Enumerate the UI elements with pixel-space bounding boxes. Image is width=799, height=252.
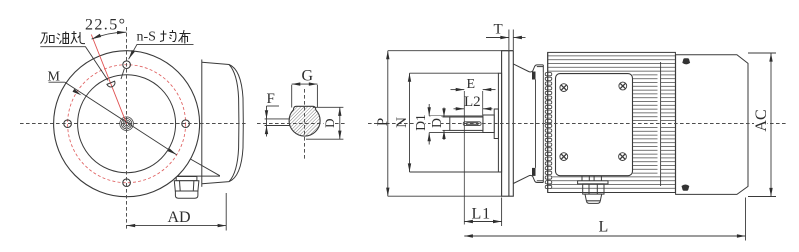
arrowhead D-section top (338, 107, 341, 116)
arrowhead P top (386, 51, 389, 60)
bolt circle (red dashed) (68, 65, 186, 183)
dimension L (464, 198, 745, 241)
bolt hole right (182, 120, 190, 128)
shaft collar (483, 115, 494, 133)
arrowhead T left (500, 36, 509, 39)
arrowhead AD right (218, 224, 227, 227)
svg-text:L: L (599, 219, 609, 236)
stator end joint line right (660, 62, 662, 186)
screw bottom-right (619, 153, 627, 161)
keyway inner slot (466, 123, 478, 125)
rubber pad top (dark) (532, 72, 536, 80)
cable gland nut body (side view) (583, 184, 604, 194)
arrowhead D-section bottom (338, 131, 341, 140)
dimension AD (127, 193, 227, 231)
arrowhead G right (309, 82, 318, 85)
arrowhead N bottom (408, 163, 411, 172)
terminal box plate (556, 74, 633, 176)
arrowhead L2 right (483, 107, 492, 110)
keyway on shaft (463, 122, 481, 126)
flange outer circle (54, 51, 200, 197)
svg-text:AC: AC (753, 109, 770, 131)
arrowhead AC top (769, 53, 772, 62)
arrowhead AD left (127, 224, 136, 227)
screw top-right (619, 82, 627, 90)
bearing hub disc (494, 109, 498, 139)
label D shaft (rotated) (431, 116, 442, 130)
arrowhead D-shaft top (442, 108, 445, 117)
dimension N (410, 73, 502, 172)
arrowhead F bottom (265, 126, 268, 135)
wire: vertical centerline of front view (126, 27, 128, 230)
svg-text:P: P (375, 118, 391, 126)
end bracket top profile (513, 64, 543, 72)
fan cover bottom screw (dark) (682, 185, 690, 191)
svg-text:F: F (267, 91, 275, 107)
motor body fins (horizontal lines) (548, 56, 676, 188)
arrowhead n-S at top bolt hole (129, 50, 135, 59)
arrowhead M upper (73, 89, 82, 96)
arrowhead L2 left (456, 107, 465, 110)
label M leader (49, 81, 65, 83)
dimension E (451, 89, 496, 91)
dimension T (486, 30, 526, 51)
oil hole symbol on inner circle (107, 81, 116, 88)
dimension F (265, 106, 290, 137)
bracket fin tabs column (545, 73, 552, 189)
stator end joint line left (547, 52, 549, 192)
svg-text:D: D (429, 118, 444, 128)
svg-text:L2: L2 (464, 94, 481, 110)
arrowhead arc left (92, 34, 102, 39)
arrowhead L1 right (493, 220, 502, 223)
dimension M diameter line across bolt circle (65, 82, 177, 155)
shared extension line (E/L2/L1 left reference) (463, 91, 465, 225)
motor body outline (548, 52, 676, 192)
svg-text:L1: L1 (472, 206, 491, 223)
svg-text:22.5°: 22.5° (85, 17, 126, 34)
flange spigot (N face) (498, 73, 501, 172)
wire: section horizontal centerline (257, 123, 346, 125)
svg-text:G: G (302, 68, 314, 85)
arrowhead G left (292, 82, 301, 85)
dimension G (292, 84, 318, 107)
arrowhead AC bottom (769, 188, 772, 197)
arrowhead arc right (117, 31, 127, 34)
svg-text:T: T (494, 22, 503, 38)
cable gland collar flange (side view) (578, 181, 608, 184)
arrowhead L1 left (464, 220, 473, 223)
bolt hole bottom (123, 179, 131, 187)
arrowhead M lower (168, 148, 177, 155)
shaft cross-section with key flat (hatched) (289, 106, 320, 136)
cable gland cap (side view) (585, 194, 602, 203)
cable gland (front view) (174, 177, 199, 199)
shaft (450, 117, 483, 130)
arrowhead N top (408, 73, 411, 82)
extension line right (E/L2) (482, 91, 484, 115)
cable gland feet (side view) (582, 176, 601, 181)
terminal box bottom edge (front view) (177, 159, 220, 176)
bolt hole top (123, 61, 131, 69)
arrowhead D-shaft bottom (442, 130, 445, 139)
flange plate (side view) (502, 51, 514, 197)
flange inner circle (78, 75, 176, 173)
svg-text:D1: D1 (413, 114, 428, 131)
red radial line at 22.5 deg (91, 35, 126, 124)
bolt hole left (64, 120, 72, 128)
label n-S leader (121, 44, 194, 79)
arrowhead F top (265, 110, 268, 119)
arrowhead D1 bottom (428, 133, 431, 142)
arrowhead E right (483, 88, 492, 91)
screw top-left (560, 84, 568, 92)
label AC (rotated) (754, 105, 767, 136)
wire: horizontal centerline of front view (20, 123, 247, 125)
svg-text:n-S: n-S (137, 30, 156, 45)
label D1 (rotated) (415, 115, 426, 131)
bracket rib verticals (536, 72, 544, 175)
svg-text:AD: AD (168, 209, 191, 226)
dimension AC (748, 53, 776, 197)
arrowhead E left (456, 88, 465, 91)
arrowhead L right (737, 234, 746, 237)
svg-text:D: D (322, 119, 337, 128)
dimension arc 22.5 deg (92, 32, 127, 39)
arrowhead D1 top (428, 107, 431, 116)
shaft center rings (120, 117, 134, 131)
fan cover outline (676, 55, 748, 195)
arrowhead L left (464, 234, 473, 237)
arrowhead P bottom (386, 188, 389, 197)
dimension D (shaft) (443, 108, 450, 141)
dimension D1 (429, 104, 483, 145)
screw bottom-left (560, 153, 568, 161)
wire: side view centerline (368, 123, 786, 125)
svg-text:M: M (48, 70, 61, 85)
fan cover top screw (dark) (682, 58, 690, 64)
wire: section vertical centerline (304, 89, 306, 159)
label 加油孔 (hand-drawn glyphs) (41, 31, 86, 44)
dimension L1 (464, 198, 501, 227)
motor body silhouette behind flange (front view right side) (202, 60, 244, 187)
dimension D (section) (306, 107, 343, 139)
svg-text:E: E (467, 77, 476, 92)
arrowhead T right (513, 36, 522, 39)
dimension P (388, 51, 514, 197)
label D (section, rotated) (324, 116, 335, 131)
end bracket bottom profile (513, 175, 543, 183)
dimension L2 (454, 108, 493, 110)
svg-text:N: N (394, 117, 410, 128)
label 加油孔 leader (40, 47, 108, 81)
rubber pad bottom (dark) (532, 168, 536, 176)
